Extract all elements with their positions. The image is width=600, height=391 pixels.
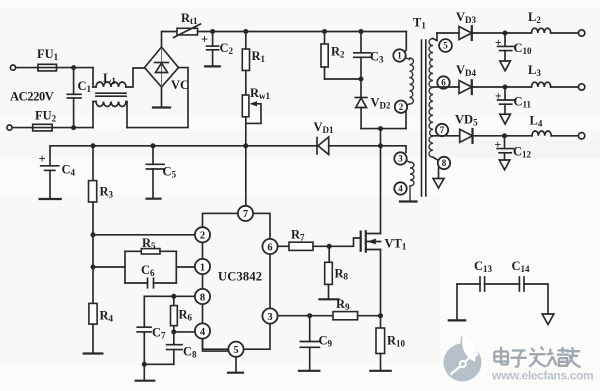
wire to output 2 xyxy=(551,86,579,88)
wire source down xyxy=(380,250,382,316)
node mid rail drain xyxy=(378,143,383,148)
ground triangle C12 xyxy=(499,160,510,170)
Y-caps C13 C14 wire xyxy=(457,283,480,285)
ground triangle C11 xyxy=(500,114,511,124)
resistor R5 with capacitor C6 parallel box xyxy=(125,236,195,288)
ground bar C13 xyxy=(449,319,465,321)
output row 1: wire xyxy=(437,32,459,34)
ground bar bridge negative xyxy=(153,87,170,108)
wire to output 3 xyxy=(551,135,578,137)
svg-text:5: 5 xyxy=(233,345,238,356)
watermark logo xyxy=(444,337,482,382)
inductor L4 xyxy=(530,114,552,136)
capacitor C5 xyxy=(146,146,176,198)
wire rail end to primary pin1 xyxy=(404,32,406,53)
node source R10 xyxy=(378,313,383,318)
wire winding to pin8 xyxy=(433,157,439,160)
node pin1 branch xyxy=(91,265,96,270)
node C1 top xyxy=(71,65,76,70)
capacitor C11 xyxy=(495,87,532,114)
pin 5 xyxy=(439,39,452,52)
wire pin7 to mid rail xyxy=(245,146,247,206)
diode VD1 xyxy=(314,120,335,155)
svg-text:UC3842: UC3842 xyxy=(218,270,262,284)
output terminal 1 xyxy=(578,30,584,36)
pin 2 xyxy=(395,101,407,113)
resistor R10 xyxy=(376,316,406,370)
ground bar C9 xyxy=(299,370,319,372)
diode VD4 xyxy=(456,63,477,94)
capacitor C1 xyxy=(67,68,91,128)
capacitor C3 xyxy=(354,32,384,80)
inductor L1 (common-mode choke) xyxy=(93,68,126,128)
resistor R4 xyxy=(89,303,114,353)
node C9 xyxy=(307,313,312,318)
svg-text:4: 4 xyxy=(398,184,403,194)
wire VD2 to transformer pin2 xyxy=(361,128,406,130)
wire pin5 to ground xyxy=(235,357,237,372)
wire C7 C8 bottom join xyxy=(144,363,174,365)
resistor R1 xyxy=(242,32,265,96)
pin 3 xyxy=(262,308,277,323)
wire xyxy=(16,67,93,69)
transformer T1 core xyxy=(422,40,426,196)
wire drain up xyxy=(380,129,382,234)
resistor R8 xyxy=(325,246,349,298)
output row 2: wire xyxy=(433,86,459,88)
ground bar R10 xyxy=(370,370,390,372)
transformer primary winding 1-2 xyxy=(405,58,414,106)
ground bar pin5 xyxy=(228,372,243,374)
wire L1 top to bridge xyxy=(126,68,145,87)
resistor R7 xyxy=(289,228,313,251)
transformer secondary winding 5-8 xyxy=(429,39,433,158)
wire bottom rail to bridge right vertex xyxy=(127,68,188,128)
pin 1 xyxy=(195,259,210,274)
wire to output 1 xyxy=(551,32,579,34)
mid rail left segment xyxy=(50,145,317,147)
resistor R9 xyxy=(333,297,381,320)
potentiometer Rw1 xyxy=(242,86,270,146)
capacitor C9 xyxy=(300,316,332,370)
node mid rail R3 xyxy=(91,143,96,148)
node mid rail pin7 xyxy=(243,143,248,148)
svg-text:www.elecfans.com: www.elecfans.com xyxy=(491,369,593,383)
pin 6 xyxy=(437,76,449,88)
wire bridge top to Rt1 xyxy=(162,32,178,48)
ground bar C4 xyxy=(40,198,61,200)
ground triangle C14 xyxy=(542,314,554,325)
wire C13 left down xyxy=(456,284,458,320)
node C2 xyxy=(210,29,215,34)
zener diode VD2 xyxy=(355,79,391,129)
wire to ground xyxy=(143,364,145,380)
AC input terminal top xyxy=(10,65,15,70)
capacitor C10 xyxy=(495,33,532,61)
pin 7 xyxy=(238,206,253,221)
capacitor C4 xyxy=(39,146,76,198)
top DC rail xyxy=(198,31,407,33)
output terminal 3 xyxy=(578,133,584,139)
wire pin8 to ground xyxy=(438,168,440,178)
svg-text:4: 4 xyxy=(200,327,206,338)
node R1 xyxy=(243,29,248,34)
pin 1 xyxy=(393,49,405,61)
svg-text:+: + xyxy=(201,33,208,47)
wire L1 bottom to bottom rail xyxy=(126,102,127,128)
pin 6 xyxy=(262,239,277,254)
node gate R8 xyxy=(327,244,332,249)
node C11 xyxy=(503,85,508,90)
transistor Q1 VT1 MOSFET xyxy=(361,231,407,251)
wire mid rail to aux winding xyxy=(405,146,407,153)
capacitor C12 xyxy=(495,136,532,160)
wire pin2 down xyxy=(405,111,407,128)
svg-text:2: 2 xyxy=(399,102,404,112)
pin 8 xyxy=(195,289,210,304)
node C3 top xyxy=(359,29,364,34)
ground bar R4 xyxy=(84,352,103,354)
pin 7 xyxy=(436,124,448,136)
wire pin4 line xyxy=(174,331,195,333)
node R6 C8 xyxy=(171,329,176,334)
svg-text:1: 1 xyxy=(397,51,402,61)
node pin2 branch xyxy=(91,232,96,237)
svg-text:2: 2 xyxy=(200,231,205,242)
svg-text:3: 3 xyxy=(398,154,403,164)
wire to chip pin2 xyxy=(93,234,195,236)
capacitor C2 xyxy=(201,32,234,66)
node drain top xyxy=(378,126,383,131)
svg-text:6: 6 xyxy=(267,242,272,253)
output terminal 2 xyxy=(578,84,584,90)
node C3 bottom xyxy=(359,77,364,82)
op-amp U1 UC3842 body xyxy=(203,213,271,349)
node C10 xyxy=(503,31,508,36)
resistor R6 xyxy=(171,296,193,344)
AC input terminal bottom xyxy=(7,125,12,130)
wire secondary top hook xyxy=(433,33,437,41)
transformer aux winding 3-4 xyxy=(406,161,414,201)
pin 5 xyxy=(228,342,243,357)
fuse FU1 xyxy=(38,64,57,71)
svg-text:7: 7 xyxy=(243,209,248,220)
pin 4 xyxy=(394,182,406,194)
pin 3 xyxy=(394,152,406,164)
thermistor Rt1 xyxy=(174,11,201,38)
pin 8 xyxy=(438,157,450,169)
node C7 bottom xyxy=(142,362,147,367)
node C12 xyxy=(502,133,507,138)
wire R7 to gate xyxy=(313,238,361,246)
capacitor C7 xyxy=(137,296,166,364)
node C1 bottom xyxy=(71,125,76,130)
output row 3: wire xyxy=(433,135,460,137)
wire xyxy=(473,135,533,137)
resistor R2 xyxy=(321,32,361,80)
wire pin6 to R7 xyxy=(278,245,289,247)
watermark text dianzi fashaoyou xyxy=(494,347,580,368)
svg-text:3: 3 xyxy=(267,312,272,323)
wire pin8 line xyxy=(144,295,195,297)
bridge rectifier VC xyxy=(145,47,190,92)
pin 2 xyxy=(195,227,210,242)
ground triangle pin8 xyxy=(433,179,444,189)
wire xyxy=(12,127,93,129)
wire to R5C6 box xyxy=(93,266,125,268)
ground bar R8 xyxy=(319,298,338,300)
resistor R3 xyxy=(89,146,114,304)
svg-text:7: 7 xyxy=(440,125,445,135)
node mid rail C5 xyxy=(151,143,156,148)
svg-text:AC220V: AC220V xyxy=(10,90,54,104)
diode VD5 xyxy=(455,113,478,143)
svg-text:8: 8 xyxy=(200,292,205,303)
ground bar aux winding xyxy=(400,200,417,202)
node C7 R6 top xyxy=(171,294,176,299)
capacitor C13 xyxy=(474,259,493,291)
mid rail right segment xyxy=(329,145,406,147)
pin 4 xyxy=(195,323,210,338)
svg-text:+: + xyxy=(39,152,46,166)
fuse FU2 xyxy=(33,124,52,131)
svg-text:8: 8 xyxy=(442,158,447,168)
wire between C13 C14 xyxy=(485,283,520,285)
inductor L3 xyxy=(528,63,551,87)
svg-text:5: 5 xyxy=(443,41,448,51)
wire C14 right down xyxy=(524,284,548,314)
wire xyxy=(472,32,532,34)
svg-text:1: 1 xyxy=(200,262,205,273)
diode VD3 xyxy=(456,10,477,40)
capacitor C14 xyxy=(512,259,531,291)
ground bar C5 xyxy=(147,198,161,200)
wire pin4 to pin5 xyxy=(203,339,229,352)
ground triangle C10 xyxy=(500,61,511,71)
wire pin3 line xyxy=(278,315,333,317)
ground bar C7 xyxy=(136,380,155,382)
ground bar C2 xyxy=(205,65,220,67)
svg-text:VC: VC xyxy=(171,78,189,92)
capacitor C8 xyxy=(167,345,197,365)
node R2 xyxy=(322,29,327,34)
inductor L2 xyxy=(528,10,551,33)
wire xyxy=(472,86,532,88)
